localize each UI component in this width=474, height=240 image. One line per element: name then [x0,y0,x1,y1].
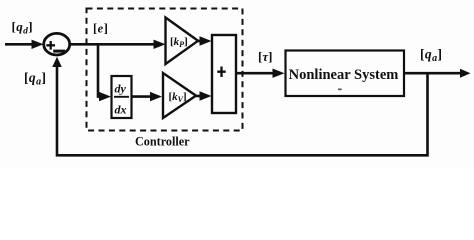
wire W3: branch node B1 down and into dy/dx block [98,44,102,96]
plus label in A1 [217,67,225,78]
summer block A1 [212,35,236,113]
block N1: Nonlinear System [286,51,405,97]
wire W1: input arrow into summing junction S1 [5,43,34,46]
svg-text:dy: dy [115,82,127,96]
svg-text:[qa]: [qa] [24,70,46,88]
plus sign in S1 [46,41,55,50]
wire W7: A1 output [tau] to Nonlinear System [236,72,277,75]
wire W4: D1 output to amplifier kV input [132,95,154,98]
svg-text:[kV]: [kV] [169,91,187,104]
svg-text:[e]: [e] [93,22,108,36]
svg-text:Controller: Controller [135,135,190,149]
svg-text:[τ]: [τ] [258,49,272,64]
wire W6: kV output to summer A1 [196,95,203,98]
svg-text:dx: dx [115,103,127,117]
amplifier kV (triangle) [163,73,196,118]
svg-text:[qd]: [qd] [12,19,34,37]
minus sign in S1 [53,50,65,53]
amplifier kP (triangle) [166,18,199,65]
wire W9: feedback path from output down, left and up into S1 [57,62,428,155]
wire W5: kP output to summer A1 [198,40,203,43]
wire W2: S1 output to amplifier kP input [70,43,157,46]
wire W8: N1 output to [q_a] [405,72,463,75]
svg-text:[qa]: [qa] [420,46,442,64]
svg-text:[kP]: [kP] [170,36,188,49]
controller boundary (dashed box) [87,9,243,131]
summing junction S1 [44,33,70,55]
block D1: dy/dx differentiator [112,76,132,118]
svg-text:Nonlinear System: Nonlinear System [289,67,399,83]
